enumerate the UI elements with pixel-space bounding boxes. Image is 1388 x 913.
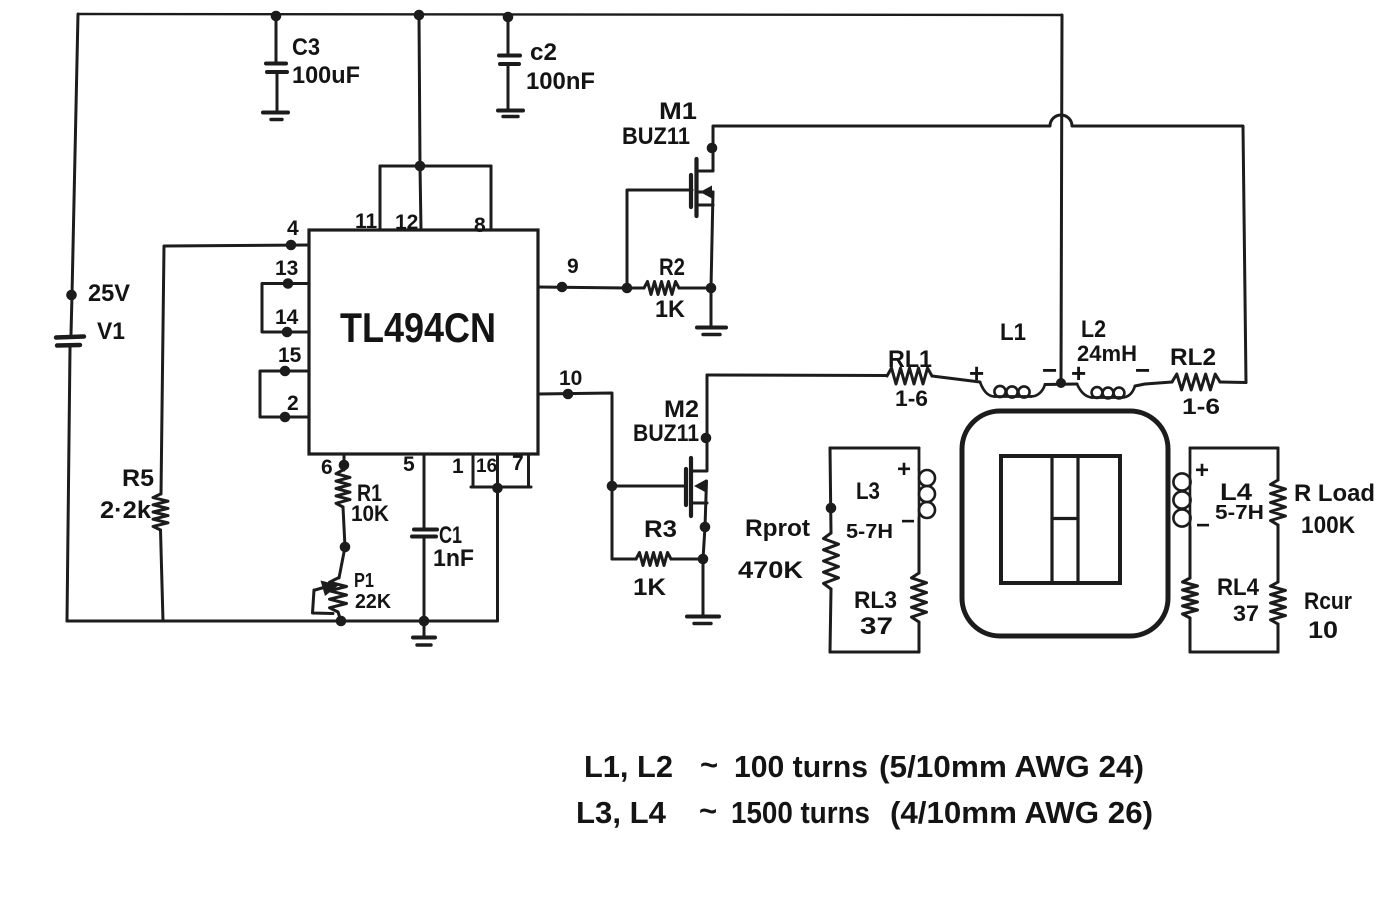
node C1 ground junction [419,616,430,627]
label M1 [659,98,697,125]
label L2 [1081,316,1106,343]
node pin 4 [286,240,297,251]
node M2 gate tee [607,481,618,492]
pin 4 label [287,217,299,240]
node pin12 junction [415,161,426,172]
capacitor C2 [498,17,523,117]
label L1 minus [1042,355,1057,385]
svg-text:100uF: 100uF [292,62,360,89]
node pin 13 [283,278,294,289]
svg-text:1-6: 1-6 [895,386,928,411]
pin 5 label [403,453,415,476]
wire M2 gate link [612,485,686,488]
label P1 [354,570,374,592]
label R1 [357,480,382,507]
node M1 drain [707,143,718,154]
pin 15 label [278,344,302,367]
label V1 [97,318,125,345]
resistor Rprot [824,448,839,652]
capacitor C1 [412,454,437,621]
wire rail to pin 12 [419,15,421,230]
wire M1 source to ground [711,192,713,326]
svg-text:4: 4 [287,217,299,240]
inductor L3 [919,448,935,518]
resistor R1 [336,454,350,578]
transistor M2 BUZ11 [686,375,707,516]
label RL4 37 [1233,601,1259,626]
label C1 [439,522,462,549]
label L4 [1220,479,1253,506]
inductor L1 [980,382,1045,398]
svg-text:100nF: 100nF [526,68,595,95]
svg-text:Rprot: Rprot [745,515,810,542]
resistor RL4 [1183,527,1198,652]
svg-text:P1: P1 [354,570,374,592]
pin 10 label [559,367,582,390]
pin 8 label [474,214,486,237]
label M2 [664,396,699,423]
label Rcur 10 [1308,617,1338,644]
svg-text:22K: 22K [355,591,392,613]
pin 7 label [512,452,524,475]
label L2 plus [1071,358,1086,388]
wire pins 16-7 strap [471,455,531,621]
svg-text:2: 2 [287,392,299,415]
node R2 right [706,283,717,294]
label C3 [292,34,320,61]
transformer core divider right [1076,456,1079,583]
wire load loop top [1190,447,1278,450]
wire L2 to RL2 [1135,382,1172,386]
svg-text:5-7H: 5-7H [1215,502,1264,524]
pin 1 label [452,455,464,478]
svg-text:−: − [1135,355,1150,385]
wire rail to L1-L2 junction [1061,15,1062,383]
inductor L2 [1077,384,1135,398]
svg-text:100K: 100K [1301,512,1356,539]
wire bottom ground rail [67,620,497,623]
svg-text:R2: R2 [659,254,685,281]
svg-text:~: ~ [700,747,718,782]
resistor R5 [153,494,168,621]
svg-text:11: 11 [355,210,378,233]
label R Load [1294,480,1375,507]
label R3 1K [633,574,667,601]
label RL2 1-6 [1182,394,1220,419]
label 25V [88,280,130,307]
svg-text:14: 14 [275,306,299,329]
svg-text:15: 15 [278,344,302,367]
svg-text:RL4: RL4 [1217,574,1260,601]
svg-text:RL2: RL2 [1170,344,1216,371]
pin 11 label [355,210,378,233]
svg-text:RL1: RL1 [888,346,932,373]
resistor Rcur [1271,582,1286,652]
label RL1 1-6 [895,386,928,411]
svg-text:+: + [897,456,911,483]
node pin 6 [339,460,350,471]
label Rcur [1304,588,1352,615]
wire Rprot loop bottom [830,651,919,654]
svg-text:c2: c2 [530,39,557,66]
svg-text:8: 8 [474,214,486,237]
svg-text:RL3: RL3 [854,587,897,614]
wire pins 11 and 8 header [380,166,491,230]
label L3 minus [901,508,915,535]
svg-text:R5: R5 [122,465,154,492]
wire M1 gate link [627,190,692,288]
note L1 L2 winding [584,747,1144,784]
ground M1 [697,328,726,335]
wire load loop bottom [1190,651,1278,654]
svg-text:R3: R3 [644,516,677,543]
pin 9 label [567,255,579,278]
wire pins 13-14 strap [262,284,309,333]
pin 14 label [275,306,299,329]
wire pin 10 to gate node [538,393,612,559]
pin 6 label [321,456,333,479]
node R3 right [698,554,709,565]
wire pin 4 to left [161,245,309,494]
pin 13 label [275,257,298,280]
capacitor C3 [263,16,288,120]
svg-text:1nF: 1nF [433,545,474,572]
node pin 9 [557,282,568,293]
wire top supply rail [78,10,1062,23]
node R1-P1 [340,542,351,553]
label L2 minus [1135,355,1150,385]
label R3 [644,516,677,543]
label L4 5-7H [1215,502,1264,524]
label L1 [1000,319,1026,346]
wire Rprot loop top [830,447,919,450]
svg-text:L3: L3 [856,478,880,505]
svg-text:~: ~ [699,793,717,828]
svg-text:TL494CN: TL494CN [340,304,496,351]
svg-text:1K: 1K [633,574,667,601]
label 2.2k [100,497,152,524]
label 10K [351,501,389,526]
label TL494CN [340,304,496,351]
wire left vertical from rail to battery [71,14,78,334]
note L3 L4 winding [576,793,1153,830]
label 100K [1301,512,1356,539]
pin 12 label [395,211,418,234]
label R2 1K [655,296,686,323]
svg-text:100 turns: 100 turns [734,749,868,784]
svg-text:BUZ11: BUZ11 [633,420,699,447]
label 24mH [1077,341,1137,366]
svg-text:37: 37 [1233,601,1259,626]
node pin 10 [563,389,574,400]
svg-text:L1: L1 [1000,319,1026,346]
label R5 [122,465,154,492]
svg-text:1-6: 1-6 [1182,394,1220,419]
svg-text:−: − [1196,512,1210,539]
node pin 14 [282,327,293,338]
node L1-L2 [1056,378,1066,388]
svg-text:5-7H: 5-7H [846,521,893,543]
svg-text:37: 37 [860,613,893,640]
svg-text:13: 13 [275,257,298,280]
svg-text:C3: C3 [292,34,320,61]
pin 2 label [287,392,299,415]
svg-text:1K: 1K [655,296,686,323]
label 22K [355,591,392,613]
svg-text:10: 10 [1308,617,1338,644]
node pin 2 [280,412,291,423]
op-amp U1 TL494CN body [309,230,538,454]
svg-text:+: + [1195,457,1209,484]
svg-text:6: 6 [321,456,333,479]
svg-text:M1: M1 [659,98,697,125]
svg-text:25V: 25V [88,280,130,307]
node pin 15 [280,366,291,377]
node R2 left [622,283,633,294]
transformer core gap bar [1052,517,1078,520]
label R2 [659,254,685,281]
label L3 [856,478,880,505]
node battery top [66,290,77,301]
label Rprot [745,515,810,542]
svg-text:Rcur: Rcur [1304,588,1352,615]
svg-text:1500 turns: 1500 turns [731,795,870,830]
resistor RL3 [912,518,927,652]
svg-text:5: 5 [403,453,415,476]
svg-text:24mH: 24mH [1077,341,1137,366]
svg-text:(5/10mm AWG 24): (5/10mm AWG 24) [879,749,1144,784]
svg-text:470K: 470K [738,557,804,584]
wire pin 9 to R2 node [538,287,627,288]
svg-text:1: 1 [452,455,464,478]
label L3 5-7H [846,521,893,543]
label RL4 [1217,574,1260,601]
label 100nF [526,68,595,95]
label 1nF [433,545,474,572]
svg-text:7: 7 [512,452,524,475]
resistor RLoad [1271,448,1286,582]
label L3 plus [897,456,911,483]
label M1 BUZ11 [622,123,690,150]
transformer core outer [962,411,1168,636]
label RL1 [888,346,932,373]
svg-text:L3, L4: L3, L4 [576,795,667,830]
svg-text:10: 10 [559,367,582,390]
svg-text:BUZ11: BUZ11 [622,123,690,150]
label M2 BUZ11 [633,420,699,447]
ground M2 [687,617,719,624]
svg-text:M2: M2 [664,396,699,423]
resistor R2 [627,282,711,295]
label L4 plus [1195,457,1209,484]
potentiometer P1 [313,578,347,621]
wire L1 L2 junction [1045,383,1077,387]
label RL3 37 [860,613,893,640]
battery V1 [56,337,84,622]
node Rprot [826,503,837,514]
svg-text:2·2k: 2·2k [100,497,152,524]
node pins16-7 junction [492,483,503,494]
pin 16 label [476,456,497,477]
transistor M1 BUZ11 [691,126,713,216]
svg-text:−: − [1042,355,1057,385]
resistor RL1 [887,368,980,384]
wire M2 drain to RL1 [707,374,887,378]
wire M2 source to ground [703,481,707,615]
label 100uF [292,62,360,89]
node P1 bottom [336,616,347,627]
label RL3 [854,587,897,614]
ground C1 [413,621,435,645]
svg-text:(4/10mm AWG 26): (4/10mm AWG 26) [890,795,1153,830]
label RL2 [1170,344,1216,371]
svg-text:R Load: R Load [1294,480,1375,507]
label 470K [738,557,804,584]
wire pins 15-2 strap [260,371,309,417]
resistor RL2 [1172,374,1246,390]
label L1 plus [969,358,984,388]
inductor L4 [1173,448,1190,527]
svg-text:12: 12 [395,211,418,234]
transformer core divider left [1050,456,1053,583]
node M2 drain [701,433,712,444]
svg-text:9: 9 [567,255,579,278]
svg-text:16: 16 [476,456,497,477]
svg-text:10K: 10K [351,501,389,526]
wire M1 drain rail with hop [714,115,1246,383]
label L4 minus [1196,512,1210,539]
label C2 [530,39,557,66]
svg-text:L2: L2 [1081,316,1106,343]
transformer core inner [1001,456,1120,583]
svg-text:V1: V1 [97,318,125,345]
resistor R3 [612,553,703,566]
svg-text:L1, L2: L1, L2 [584,749,673,784]
svg-text:−: − [901,508,915,535]
node M2 source [700,522,711,533]
